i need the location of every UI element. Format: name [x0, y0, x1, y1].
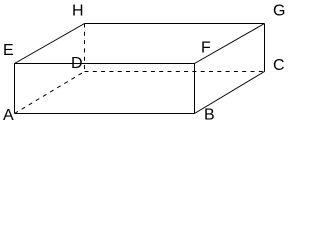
svg-text:F: F — [201, 40, 211, 57]
edge FB (front right vertical) — [194, 64, 196, 114]
svg-text:B: B — [204, 107, 215, 124]
hidden edge DC (dashed horizontal) — [85, 71, 265, 73]
edge AB (front bottom) — [15, 113, 195, 115]
edge BC (right bottom depth diagonal) — [195, 72, 265, 114]
edge FG (right top depth diagonal) — [195, 24, 265, 64]
edge GC (back right vertical) — [264, 24, 266, 72]
svg-text:H: H — [72, 3, 84, 20]
svg-text:D: D — [71, 55, 83, 72]
svg-text:G: G — [273, 3, 285, 20]
svg-text:A: A — [3, 107, 14, 124]
edge HG (back top) — [85, 23, 265, 25]
hidden edge AD (dashed depth diagonal) — [15, 72, 85, 114]
svg-text:E: E — [3, 42, 14, 59]
edge EH (left depth diagonal) — [15, 24, 85, 64]
edge EF (front top) — [15, 63, 195, 65]
hidden edge HD (dashed vertical) — [84, 24, 86, 72]
edge EA (front left vertical) — [14, 64, 16, 114]
svg-text:C: C — [273, 57, 285, 74]
